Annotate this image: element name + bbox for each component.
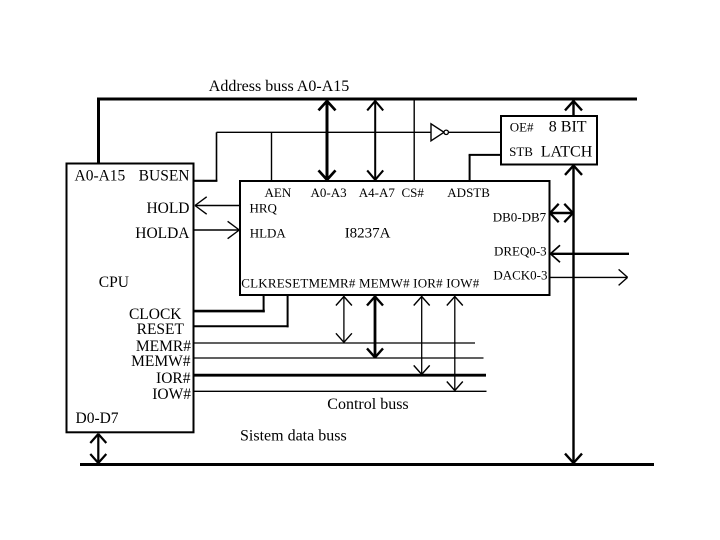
- svg-text:CPU: CPU: [99, 274, 129, 291]
- svg-text:A0-A3: A0-A3: [311, 185, 347, 200]
- svg-text:Address buss A0-A15: Address buss A0-A15: [209, 78, 349, 95]
- svg-text:OE#: OE#: [510, 120, 534, 135]
- svg-text:IOW#: IOW#: [152, 386, 191, 403]
- svg-text:Sistem data buss: Sistem data buss: [240, 428, 347, 445]
- svg-text:DREQ0-3: DREQ0-3: [494, 244, 547, 259]
- svg-text:IOR#: IOR#: [156, 370, 191, 387]
- svg-text:MEMW#: MEMW#: [131, 353, 191, 370]
- svg-text:A0-A15: A0-A15: [75, 168, 126, 185]
- svg-text:HOLD: HOLD: [146, 200, 189, 217]
- svg-text:Control buss: Control buss: [327, 396, 408, 413]
- svg-text:CS#: CS#: [402, 185, 425, 200]
- svg-text:CLKRESETMEMR# MEMW# IOR# IOW#: CLKRESETMEMR# MEMW# IOR# IOW#: [241, 275, 479, 290]
- svg-text:I8237A: I8237A: [345, 226, 391, 242]
- svg-text:HOLDA: HOLDA: [135, 225, 190, 242]
- svg-text:DACK0-3: DACK0-3: [493, 267, 547, 282]
- svg-text:A4-A7: A4-A7: [359, 185, 396, 200]
- svg-text:HRQ: HRQ: [250, 200, 278, 215]
- svg-text:RESET: RESET: [137, 321, 185, 338]
- svg-text:ADSTB: ADSTB: [447, 185, 490, 200]
- svg-text:AEN: AEN: [265, 185, 292, 200]
- svg-text:D0-D7: D0-D7: [76, 410, 119, 427]
- svg-text:STB: STB: [509, 144, 533, 159]
- svg-text:DB0-DB7: DB0-DB7: [493, 210, 547, 225]
- svg-text:BUSEN: BUSEN: [139, 168, 190, 185]
- svg-text:8 BIT: 8 BIT: [549, 119, 587, 136]
- svg-text:LATCH: LATCH: [541, 143, 593, 160]
- svg-text:HLDA: HLDA: [250, 225, 287, 240]
